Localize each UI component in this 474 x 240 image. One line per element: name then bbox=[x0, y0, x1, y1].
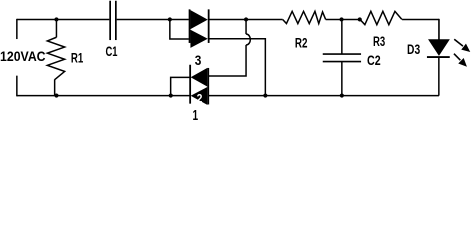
wire top rail diac to R2 bbox=[209, 19, 282, 21]
wire top rail R3 end to right corner bbox=[402, 19, 439, 21]
node dot bottom rail at triac riser bbox=[169, 93, 173, 97]
triac Q1 lower triangle (points left) bbox=[191, 87, 208, 105]
resistor R2 bbox=[283, 11, 326, 23]
triac Q1 upper triangle (points left) bbox=[191, 68, 208, 87]
LED D3 emission arrow 2 bbox=[454, 54, 467, 67]
node A dot top rail at diac branch bbox=[168, 17, 172, 21]
node D dot top rail at R3 start bbox=[358, 17, 362, 21]
node dot bottom rail at R1 bbox=[54, 93, 58, 97]
triac Q1 right bar bbox=[207, 68, 209, 105]
svg-text:C1: C1 bbox=[105, 44, 117, 60]
LED D3 top lead bbox=[438, 19, 440, 40]
diac D1 right bar bbox=[208, 9, 210, 43]
wire diac output to right and down to bottom rail bbox=[209, 39, 265, 96]
LED D3 cathode bar bbox=[427, 56, 450, 58]
svg-text:1: 1 bbox=[193, 108, 199, 123]
svg-text:2: 2 bbox=[197, 92, 203, 106]
svg-text:C2: C2 bbox=[367, 53, 381, 69]
svg-text:3: 3 bbox=[195, 53, 202, 68]
resistor R1 bbox=[47, 20, 64, 96]
wire top rail C1 to diac bbox=[117, 19, 189, 21]
svg-text:D3: D3 bbox=[407, 42, 420, 58]
wire left source upper bbox=[16, 19, 18, 39]
wire top rail R2 end to R3 start bbox=[326, 19, 360, 21]
svg-text:R1: R1 bbox=[71, 51, 83, 67]
svg-text:120VAC: 120VAC bbox=[0, 49, 46, 65]
wire hop (crossover bridge) over diac output wire bbox=[246, 34, 250, 45]
wire bottom rail left bbox=[17, 95, 190, 97]
wire left source lower bbox=[16, 76, 18, 97]
node dot bottom rail at C2 bbox=[340, 93, 344, 97]
triac Q1 left bar (extends up toward pin 3) bbox=[189, 65, 191, 104]
LED D3 emission arrow 1 bbox=[454, 39, 470, 52]
wire bottom rail right bbox=[209, 95, 439, 97]
node dot top rail at R1 bbox=[54, 17, 58, 21]
diac D1 upper triangle (points right) bbox=[190, 10, 207, 29]
node B dot top rail at MT2 branch bbox=[244, 17, 248, 21]
wire node B drop upper part bbox=[245, 20, 247, 35]
wire node A down and right to diac lower anode bbox=[170, 20, 189, 39]
wire top rail left segment bbox=[17, 19, 110, 21]
svg-text:R2: R2 bbox=[295, 36, 308, 52]
capacitor C2 bottom lead bbox=[341, 62, 343, 96]
node C dot top rail at C2 branch bbox=[339, 17, 343, 21]
resistor R3 bbox=[360, 11, 402, 24]
LED D3 triangle (points down) bbox=[428, 39, 450, 56]
node dot diac output at bottom rail bbox=[263, 93, 267, 97]
LED D3 bottom lead bbox=[438, 57, 440, 96]
wire node B drop lower part and left to triac MT2 bbox=[209, 45, 246, 76]
capacitor C2 plates bbox=[323, 54, 361, 62]
diac D1 left bar bbox=[189, 9, 191, 43]
capacitor C2 top lead bbox=[341, 20, 343, 54]
diac D1 lower triangle (points right) bbox=[190, 30, 207, 48]
svg-text:R3: R3 bbox=[373, 34, 385, 50]
wire triac riser up and right to MT1 bbox=[171, 77, 190, 95]
capacitor C1 bbox=[110, 1, 116, 40]
